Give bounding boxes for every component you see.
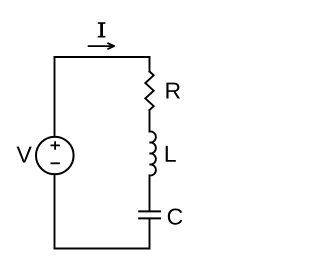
- wire resistor to inductor: [149, 110, 151, 132]
- wire capacitor to bottom: [149, 219, 151, 248]
- current arrow head: [107, 43, 114, 49]
- capacitor C top plate: [138, 210, 161, 212]
- inductor L: [150, 131, 156, 175]
- wire top (node between source + and resistor): [55, 56, 150, 58]
- voltage source V circle: [36, 137, 74, 175]
- wire right upper (top wire to resistor): [149, 57, 151, 72]
- wire inductor to capacitor: [149, 176, 151, 211]
- wire bottom (return path): [55, 248, 150, 250]
- current arrow shaft: [88, 45, 113, 47]
- resistor R: [145, 72, 153, 111]
- label L (inductor): [166, 146, 176, 162]
- label I (current): [98, 22, 106, 37]
- label V (source): [17, 147, 32, 163]
- label C (capacitor): [168, 208, 183, 224]
- wire left upper (source + terminal to top wire): [54, 57, 56, 137]
- source minus sign: [51, 162, 60, 164]
- label R (resistor): [166, 83, 180, 99]
- capacitor C bottom plate: [138, 217, 161, 219]
- wire left lower (source - terminal to bottom wire): [54, 174, 56, 248]
- source plus sign: [51, 141, 60, 150]
